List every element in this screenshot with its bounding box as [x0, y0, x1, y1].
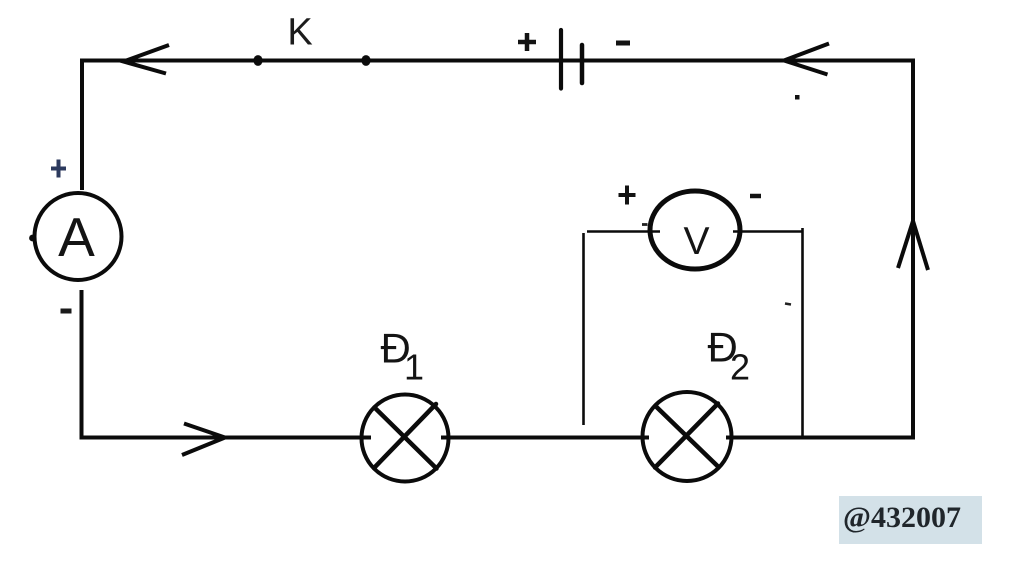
svg-text:1: 1	[404, 347, 424, 388]
battery minus sign	[616, 41, 630, 46]
battery plus sign	[518, 33, 536, 51]
wire top	[82, 59, 913, 63]
voltmeter branch wire left horizontal	[587, 230, 660, 232]
lamp D1 cross	[374, 404, 437, 469]
ammeter minus sign	[61, 309, 72, 314]
current arrow right side (pointing up)	[898, 221, 928, 270]
stray tick right of voltmeter branch	[785, 304, 791, 305]
lamp D1 circle	[362, 395, 449, 482]
wire left lower (ammeter to bottom corner)	[80, 290, 84, 440]
switch K dot 1	[253, 55, 262, 66]
watermark box	[839, 496, 982, 544]
svg-text:@432007: @432007	[843, 501, 961, 534]
battery short plate	[580, 45, 585, 83]
current arrow top-left (pointing left)	[124, 45, 170, 74]
svg-text:2: 2	[730, 347, 750, 388]
svg-text:A: A	[58, 206, 95, 268]
voltmeter V1 ellipse	[650, 191, 740, 269]
ammeter plus sign	[51, 160, 66, 178]
wire bottom middle segment	[441, 436, 649, 440]
ammeter A1 circle	[35, 193, 122, 280]
svg-text:V: V	[683, 220, 709, 263]
voltmeter branch wire right vertical	[801, 228, 804, 438]
svg-text:K: K	[287, 12, 312, 54]
current arrow bottom (pointing right)	[182, 424, 225, 456]
current arrow top-right (pointing left)	[784, 44, 829, 75]
voltmeter branch wire left vertical	[582, 233, 585, 425]
lamp D2 circle	[643, 392, 732, 481]
stray dot on ammeter left edge	[29, 235, 36, 242]
wire bottom left segment	[80, 436, 371, 440]
voltmeter branch wire right horizontal	[733, 230, 804, 232]
wire left upper (ammeter to top corner)	[80, 59, 84, 191]
voltmeter plus sign	[619, 186, 636, 205]
switch K dot 2	[361, 55, 370, 66]
voltmeter minus sign	[750, 194, 761, 199]
wire right (top corner to bottom corner)	[911, 59, 915, 440]
battery long plate	[559, 30, 563, 89]
stray dot near top-right arrow	[795, 95, 800, 100]
lamp D2 cross	[655, 404, 719, 468]
stray tick left of voltmeter	[642, 223, 648, 226]
wire bottom right segment	[726, 436, 915, 440]
